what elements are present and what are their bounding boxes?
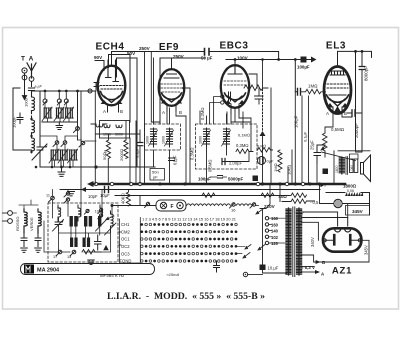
capacitor near EBC3	[255, 96, 263, 99]
wire between caps	[210, 176, 227, 178]
switch bottom osc 13	[67, 250, 76, 259]
svg-text:OC1: OC1	[121, 237, 130, 242]
wire HV to AZ1 plate 2	[302, 204, 348, 218]
wire lower return	[115, 195, 290, 197]
svg-text:A: A	[162, 110, 165, 115]
wire EBC3 pins down	[227, 108, 251, 152]
osc coil right	[105, 211, 117, 235]
node dots tier2	[60, 165, 98, 168]
capacitor 0.1uF comb	[137, 143, 143, 146]
switch arrow taps	[258, 245, 265, 251]
wire B lead	[302, 255, 322, 262]
svg-text:pF: pF	[153, 175, 158, 180]
IF1 secondary coil	[167, 128, 173, 147]
svg-text:10.µF: 10.µF	[268, 266, 279, 271]
resistor 40K vertical	[126, 190, 130, 206]
field coil resistor (sawtooth)	[345, 192, 363, 196]
terminal T	[22, 68, 27, 80]
resistor 1M ohm grid EL3	[301, 89, 326, 94]
wire EL3 grid coupling	[295, 60, 297, 92]
svg-text:6 KΩ: 6 KΩ	[257, 144, 266, 149]
op-tube U2 EF9 envelope	[159, 69, 185, 111]
svg-text:61pF: 61pF	[173, 155, 178, 165]
capacitor under VERDE	[35, 233, 41, 247]
svg-text:B: B	[322, 260, 325, 265]
svg-text:90V: 90V	[94, 55, 103, 60]
trimmer osc A	[53, 218, 64, 231]
resistor vertical 20000	[124, 140, 128, 159]
node dots on bus	[158, 182, 321, 185]
wire IF2 pins	[207, 114, 250, 184]
svg-text:100µF: 100µF	[297, 65, 310, 70]
svg-text:▶T: ▶T	[320, 183, 327, 188]
wire return line	[86, 189, 320, 191]
wire 2000pF	[348, 113, 363, 152]
wire grid leak down	[294, 92, 296, 184]
oscillator coil VERDE	[38, 209, 41, 233]
wire EL3 top	[338, 51, 372, 66]
svg-text:10KΩ: 10KΩ	[287, 165, 292, 175]
capacitor 50uF on rail	[205, 49, 210, 56]
resistor bottom osc	[82, 250, 101, 255]
box 345V	[346, 206, 370, 216]
svg-text:17: 17	[53, 255, 57, 259]
op-tube U1 ECH4 envelope	[98, 60, 126, 112]
wire lamp right bumpy 2	[236, 204, 252, 206]
IF1 primary coil	[151, 128, 157, 147]
switch arrow mains	[256, 209, 263, 214]
wire B+ drop at EBC3	[262, 60, 264, 90]
svg-text:A: A	[103, 109, 106, 114]
capacitor 61pF	[169, 158, 175, 161]
svg-text:1800Ω: 1800Ω	[343, 184, 357, 189]
resistor 5K right of IF2	[258, 148, 273, 153]
op-tube U3 EBC3 envelope	[210, 65, 250, 124]
svg-text:≈ 6,3 V: ≈ 6,3 V	[301, 265, 315, 270]
wire ECH4 50V bracket	[109, 55, 131, 123]
dot matrix row labels	[120, 222, 132, 264]
node B+ rail	[261, 58, 264, 61]
capacitor under ROSSO	[21, 233, 27, 247]
arrow under T	[22, 95, 28, 100]
switch contact 16	[230, 203, 237, 213]
svg-text:120: 120	[271, 241, 279, 246]
contact circle box bottom	[89, 260, 93, 264]
output transformer top wire	[338, 150, 370, 152]
wire EF9 pins down	[167, 112, 186, 185]
wire AVC line	[184, 88, 200, 184]
wire T down	[24, 73, 26, 96]
node on 100V rail	[234, 58, 297, 61]
wire HT rail top	[112, 51, 205, 53]
svg-text:2000Ω: 2000Ω	[119, 149, 124, 161]
wire bus down right	[263, 184, 320, 273]
capacitor 10uF PSU	[260, 265, 266, 271]
IF2 secondary coil	[224, 128, 230, 147]
op-tube U4 EL3 envelope	[324, 67, 351, 114]
wire 90V stub	[95, 61, 104, 71]
svg-text:1800: 1800	[335, 165, 339, 173]
svg-text:10pF: 10pF	[88, 194, 98, 199]
svg-text:5000: 5000	[115, 133, 123, 137]
svg-text:- 0,5: - 0,5	[310, 200, 319, 205]
svg-text:10µF: 10µF	[100, 193, 110, 198]
svg-text:0,5MΩ: 0,5MΩ	[331, 127, 344, 132]
box 50n pF	[150, 169, 165, 181]
capacitor 10uF on return	[105, 187, 109, 193]
svg-text:A: A	[29, 56, 34, 63]
wire HT rail to EBC3	[209, 52, 279, 60]
wire left edge bus	[13, 88, 32, 150]
IF2 primary coil	[204, 128, 210, 147]
pot wiper arrow	[321, 146, 325, 150]
ground at left bus	[68, 190, 75, 196]
wire EL3 plate right	[355, 51, 357, 150]
contact lamp left	[145, 202, 150, 207]
speaker	[361, 155, 371, 182]
bus left arrowhead	[87, 181, 94, 187]
padder caps black row2	[70, 238, 90, 248]
node rings on bus	[94, 182, 141, 185]
svg-text:5000pF: 5000pF	[228, 177, 243, 182]
switch contact right	[250, 203, 259, 208]
svg-text:102: 102	[271, 235, 279, 240]
dot matrix dots	[140, 223, 237, 262]
wire AF branch 1	[301, 96, 303, 184]
ground under ROSSO	[21, 248, 28, 252]
svg-text:VERDE: VERDE	[29, 217, 34, 231]
trimmer arrow row1	[96, 220, 107, 232]
svg-text:0,5MΩ: 0,5MΩ	[208, 159, 213, 172]
resistor on lower return	[202, 193, 215, 198]
wire 220V feed	[267, 184, 271, 208]
wire ECH4 grid stubs	[94, 83, 99, 92]
svg-text:F: F	[171, 204, 174, 210]
resistor 0.3M	[236, 149, 253, 154]
switch mid right	[78, 122, 97, 147]
svg-text:≈ 4V: ≈ 4V	[296, 211, 305, 216]
svg-text:0,3MΩ: 0,3MΩ	[200, 107, 205, 120]
wire 250V drop to IF1	[151, 52, 160, 123]
svg-text:250V: 250V	[139, 46, 151, 51]
dial lamp box	[156, 200, 186, 211]
wire osc internals	[44, 190, 111, 253]
svg-text:0,3MΩ: 0,3MΩ	[190, 147, 195, 160]
wire EF9 250V rail	[160, 58, 205, 124]
capacitor antenna coupling	[29, 88, 35, 91]
wire AF branch 2	[308, 96, 310, 184]
wire speaker leads	[350, 154, 359, 159]
box under ECH4 (osc coil)	[100, 121, 130, 139]
switch arrows right of matrix	[243, 245, 251, 259]
svg-text:CH1: CH1	[121, 222, 130, 227]
svg-text:0µF: 0µF	[267, 159, 275, 164]
wire IF1 pins	[154, 58, 170, 184]
svg-text:A: A	[326, 111, 329, 116]
coil in box 2	[116, 125, 122, 128]
wire antenna to grid line	[32, 90, 36, 93]
svg-text:8000pF: 8000pF	[363, 66, 368, 81]
node lamp wire	[111, 204, 114, 207]
wire 340V center tap	[302, 222, 319, 240]
wire 220V to primary	[260, 202, 291, 209]
svg-text:ECH4: ECH4	[95, 42, 124, 53]
svg-text:340V: 340V	[310, 237, 315, 247]
svg-text:50Ωµ: 50Ωµ	[102, 149, 107, 160]
wire coils top	[12, 200, 38, 213]
ground tier2	[58, 167, 65, 176]
electrolytic 70uF	[258, 157, 266, 165]
wire ECH4 anode up	[111, 52, 113, 67]
capacitor 100uF (black)	[301, 57, 307, 63]
svg-text:1000: 1000	[24, 97, 29, 107]
osc coil B	[78, 205, 81, 221]
wire osc to matrix	[118, 232, 121, 245]
svg-text:345V: 345V	[363, 245, 368, 255]
IF transformer 1 box	[145, 124, 181, 150]
wire EBC3 anode up	[234, 60, 236, 66]
wire cap EBC3	[258, 88, 260, 104]
svg-text:B: B	[179, 110, 182, 115]
wire A lead	[302, 271, 315, 273]
logo block MA2904	[21, 264, 155, 275]
wire osc mid row	[59, 227, 111, 238]
wire AZ1 output right	[322, 240, 369, 262]
svg-text:0,1µF: 0,1µF	[303, 131, 308, 142]
wire pilot row	[320, 203, 370, 205]
coil oscillator under ECH4	[91, 124, 107, 127]
svg-text:1 2 3 4 5 6 7 8 9 10 11 12 13: 1 2 3 4 5 6 7 8 9 10 11 12 13 14 15 16 1…	[142, 218, 236, 222]
wire cathode net	[317, 145, 356, 184]
capacitor 100uF left	[17, 113, 23, 124]
svg-text:MF465 K Hz: MF465 K Hz	[100, 273, 125, 278]
svg-text:160: 160	[271, 222, 279, 227]
svg-text:1000: 1000	[103, 133, 111, 137]
svg-text:AZ1: AZ1	[332, 266, 352, 277]
coil in box	[104, 125, 110, 128]
wire x81 down	[80, 91, 82, 190]
wire HV to AZ1 plate 1	[302, 212, 338, 217]
ground tier1	[56, 122, 63, 130]
svg-text:1000: 1000	[162, 136, 166, 144]
svg-text:1MΩ: 1MΩ	[273, 163, 278, 172]
resistor 1M vertical at 280	[278, 150, 282, 172]
power transformer primary winding	[286, 208, 291, 275]
svg-text:13: 13	[67, 255, 71, 259]
svg-text:100µF: 100µF	[12, 116, 17, 128]
svg-text:0,3MΩ: 0,3MΩ	[236, 143, 249, 148]
wire pot down	[255, 96, 263, 184]
dot matrix row numbers	[142, 218, 236, 222]
trimmer capacitors tier1	[44, 108, 72, 118]
resistor EBC3 right	[244, 85, 268, 91]
capacitor 25uF	[314, 145, 321, 164]
wire AZ1 filament out	[302, 266, 314, 268]
capacitor 5000pF blob	[253, 176, 259, 182]
ground osc	[88, 260, 95, 264]
svg-text:B: B	[120, 109, 123, 114]
svg-text:B: B	[344, 111, 347, 116]
node EL3 top	[354, 50, 363, 53]
svg-text:OC3: OC3	[121, 251, 130, 256]
wire junction left	[40, 136, 78, 140]
svg-text:11: 11	[46, 194, 50, 198]
node dots tier2 wire	[35, 166, 72, 169]
power transformer secondary winding	[297, 208, 302, 275]
wire antenna down	[31, 82, 33, 87]
arrow B	[316, 260, 321, 264]
svg-text:19: 19	[95, 210, 99, 214]
wire transformer left down	[333, 151, 335, 184]
capacitor mid osc	[95, 235, 102, 250]
pilot lamp circle	[334, 199, 342, 207]
capacitor 200uF	[222, 159, 225, 165]
wire lamp left	[112, 196, 156, 206]
wire antenna horizontal	[35, 90, 95, 92]
wire tier1 bottom	[42, 91, 78, 122]
contact below matrix right	[243, 272, 262, 276]
wire field coil	[326, 193, 370, 216]
svg-text:345V: 345V	[352, 209, 364, 214]
switch below tier1 right	[74, 122, 80, 133]
oscillator section box dashed	[48, 203, 118, 262]
wire lamp right bumpy	[187, 204, 231, 206]
core arrows IF2	[202, 130, 231, 146]
svg-text:1MΩ: 1MΩ	[308, 84, 317, 89]
switch contacts row 1	[43, 93, 68, 105]
capacitor 100pF bars	[218, 176, 223, 179]
arrow end of 100V rail	[311, 57, 317, 63]
svg-text:16: 16	[231, 208, 236, 213]
contacts below bus	[95, 209, 103, 219]
arrow down mid osc	[103, 245, 109, 250]
svg-text:≈15mA: ≈15mA	[167, 272, 180, 277]
output transformer secondary	[350, 159, 358, 173]
antenna A	[27, 63, 36, 81]
svg-text:1000: 1000	[199, 136, 203, 144]
svg-text:160: 160	[271, 216, 279, 221]
wire matrix right	[237, 246, 245, 253]
wire EL3 cathode	[325, 113, 352, 133]
wire 100V rail	[226, 59, 311, 61]
grommet on antenna line	[88, 89, 92, 93]
svg-text:25µF: 25µF	[310, 140, 315, 150]
svg-text:100pF: 100pF	[198, 177, 211, 182]
svg-text:10KpF: 10KpF	[294, 115, 299, 128]
potentiometer 0.5M vertical	[323, 133, 328, 157]
arrow A	[315, 270, 320, 274]
svg-text:2000pF: 2000pF	[354, 123, 359, 138]
switch bottom osc 17	[53, 250, 62, 259]
oscillator coil ROSSO	[24, 209, 27, 233]
wire tier2 bottom	[40, 161, 155, 167]
pot arrow	[260, 131, 266, 136]
padder cluster tier2	[51, 150, 76, 160]
svg-text:EL3: EL3	[326, 41, 346, 52]
wire lamp feed left	[111, 206, 113, 216]
vertical comb to bus	[95, 52, 144, 185]
svg-text:060: 060	[350, 165, 354, 171]
svg-text:0,1MΩ: 0,1MΩ	[238, 133, 250, 138]
capacitor below matrix	[214, 261, 220, 272]
svg-text:a µF: a µF	[35, 85, 43, 89]
wire 8000pF down	[361, 51, 363, 113]
svg-text:MA 2904: MA 2904	[37, 268, 60, 274]
capacitor 2000pF	[352, 110, 355, 116]
svg-text:OC2: OC2	[121, 244, 130, 249]
svg-text:T: T	[21, 56, 25, 63]
ground under VERDE	[35, 248, 42, 252]
osc coil A	[58, 205, 61, 221]
svg-text:L.I.A.R. - MODD. « 555 » «: L.I.A.R. - MODD. « 555 » « 555-B »	[107, 292, 265, 302]
wire ECH4 inner bracket	[117, 58, 138, 167]
output transformer primary	[339, 157, 344, 174]
resistor 40 ohm	[291, 193, 307, 198]
wire EBC3 plate load	[249, 74, 271, 184]
coil L2 antenna secondary	[30, 116, 34, 153]
wire taps to primary	[269, 218, 286, 243]
node dots on antenna line	[44, 90, 79, 93]
main bus (thick)	[93, 183, 345, 186]
arrow left of return line	[81, 187, 86, 192]
volume potentiometer dotted	[262, 89, 264, 131]
power transformer core	[293, 207, 295, 277]
transformer tap circles and labels	[265, 217, 268, 245]
svg-text:CM2: CM2	[121, 229, 131, 234]
resistor vertical 50K	[106, 134, 110, 182]
resistor 40 ohm b	[291, 199, 315, 204]
terminal phono 2	[3, 219, 13, 224]
capacitor 10KpF coupling	[298, 89, 301, 96]
wire mid left horizontals	[60, 189, 86, 191]
svg-text:40KΩ: 40KΩ	[121, 193, 126, 204]
contact left low	[84, 209, 89, 214]
switch row top of osc	[46, 192, 70, 211]
terminal phono 1	[3, 211, 13, 216]
matrix left border	[120, 218, 141, 264]
rectifier tube U5 AZ1 envelope	[323, 217, 361, 252]
svg-text:140: 140	[271, 229, 279, 234]
wire switch row	[53, 190, 69, 197]
svg-text:0,1µF: 0,1µF	[135, 147, 140, 158]
core arrows IF1	[149, 130, 174, 146]
output transformer core	[346, 157, 348, 175]
coil L1 antenna	[32, 91, 35, 114]
IF transformer 2 box	[196, 124, 258, 169]
padder caps black row1	[70, 216, 102, 227]
capacitor 8000pF	[359, 67, 365, 70]
svg-text:EBC3: EBC3	[219, 41, 248, 52]
bus open rings	[256, 182, 304, 185]
wire 10K down	[288, 150, 292, 184]
switch arrow low	[106, 216, 114, 220]
resistor on lower return 2	[261, 193, 274, 198]
osc coil C	[100, 205, 103, 221]
switch contacts tier2	[53, 141, 67, 147]
variable capacitor C-tune1	[32, 91, 48, 167]
svg-text:1000: 1000	[146, 136, 150, 144]
capacitor black right	[323, 169, 329, 175]
svg-text:ROSSO: ROSSO	[15, 217, 20, 231]
svg-text:0,06: 0,06	[347, 189, 354, 193]
